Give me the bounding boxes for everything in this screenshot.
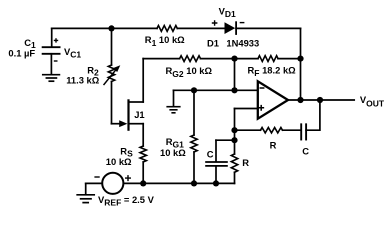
wire R2 to gate bbox=[111, 82, 113, 124]
resistor R1 bbox=[157, 26, 177, 32]
VREF plus bbox=[125, 175, 131, 181]
wire RF right segment bbox=[278, 58, 301, 60]
wire C shunt to rail bbox=[215, 166, 217, 184]
wire non-inverting input bbox=[235, 108, 258, 110]
resistor RG1 bbox=[191, 135, 197, 152]
VREF minus bbox=[94, 176, 99, 178]
wire right vertical from top rail to output bbox=[300, 28, 302, 100]
wire VREF left bbox=[86, 182, 103, 184]
resistor RG2 bbox=[180, 56, 201, 62]
node rail / RS bbox=[140, 180, 146, 186]
wire C branch horizontal bbox=[216, 139, 235, 141]
wire C branch down bbox=[215, 140, 217, 161]
C1 plus bbox=[54, 38, 58, 42]
wire top rail left segment bbox=[52, 27, 157, 29]
resistor R (series) bbox=[261, 127, 283, 132]
svg-text:1N4933: 1N4933 bbox=[226, 38, 259, 49]
op-amp U1 bbox=[258, 81, 288, 118]
resistor R (shunt) top wire bbox=[234, 140, 236, 154]
wire RS to rail bbox=[142, 162, 144, 183]
wire left drop to C1 bbox=[51, 28, 53, 46]
svg-text:0.1 µF: 0.1 µF bbox=[8, 48, 35, 59]
capacitor C (series) bbox=[301, 124, 306, 139]
resistor RS bbox=[140, 146, 146, 162]
wire RF left segment bbox=[235, 58, 259, 60]
wire bottom rail bbox=[123, 182, 234, 184]
wire + input down to RC node bbox=[234, 109, 236, 141]
D1 minus bbox=[240, 22, 245, 24]
svg-text:C: C bbox=[207, 149, 214, 160]
wire C series to output bbox=[306, 100, 320, 130]
svg-text:R: R bbox=[242, 157, 249, 168]
svg-text:J1: J1 bbox=[134, 109, 144, 120]
svg-text:10 kΩ: 10 kΩ bbox=[106, 156, 132, 167]
node RG2/RF bbox=[231, 56, 237, 62]
wire RG2 left segment bbox=[143, 58, 179, 60]
node output / C branch bbox=[317, 97, 323, 103]
wire output bbox=[288, 99, 354, 101]
ground below C1 bbox=[43, 75, 60, 82]
node output / right vertical bbox=[297, 97, 303, 103]
node inv input / RG1 bbox=[191, 87, 197, 93]
wire inverting input bbox=[174, 89, 258, 91]
wire source stub down to RS bbox=[142, 124, 144, 146]
wire RG1 vertical top bbox=[193, 90, 195, 135]
svg-text:11.3 kΩ: 11.3 kΩ bbox=[66, 74, 100, 85]
plus/minus signs bbox=[54, 20, 245, 181]
node inv input / RG2 branch bbox=[231, 87, 237, 93]
transistor J1 bbox=[112, 100, 144, 129]
wire R to C series bbox=[283, 129, 301, 131]
node top rail / R2 bbox=[108, 25, 114, 31]
wire drain up to RG2 net bbox=[142, 59, 144, 102]
wire series RC left segment bbox=[235, 129, 261, 131]
resistor RF bbox=[258, 56, 278, 62]
wire RG1 to rail bbox=[193, 152, 195, 183]
wire RG2 right segment bbox=[201, 58, 235, 60]
wire R2 vertical top bbox=[111, 28, 113, 65]
svg-text:D1: D1 bbox=[207, 38, 219, 49]
svg-text:C: C bbox=[302, 146, 309, 157]
wire R shunt to rail corner bbox=[234, 172, 236, 183]
C1 minus bbox=[54, 60, 58, 62]
wire RG2/RF node down to inverting input bbox=[234, 59, 236, 91]
wire C1 to ground bbox=[50, 54, 52, 74]
ground at VREF bbox=[77, 183, 94, 202]
node rail / RG1 bbox=[191, 180, 197, 186]
node rail / C shunt bbox=[213, 180, 219, 186]
voltage source VREF bbox=[102, 173, 123, 194]
diode D1 bbox=[225, 22, 237, 34]
node + input / C branch bbox=[231, 137, 237, 143]
D1 plus bbox=[212, 20, 218, 26]
capacitor C1 bbox=[43, 47, 60, 54]
capacitor C (shunt) bbox=[206, 162, 227, 166]
node RF / right vertical bbox=[297, 56, 303, 62]
svg-text:R: R bbox=[270, 140, 277, 151]
node + input / series RC bbox=[231, 127, 237, 133]
wire top rail right segment bbox=[236, 27, 300, 29]
svg-text:10 kΩ: 10 kΩ bbox=[160, 147, 186, 158]
wire top rail middle segment bbox=[177, 27, 224, 29]
resistor R (shunt) bbox=[231, 154, 237, 172]
ground at inverting input bbox=[167, 90, 180, 113]
resistor R2 (variable) bbox=[104, 65, 120, 85]
